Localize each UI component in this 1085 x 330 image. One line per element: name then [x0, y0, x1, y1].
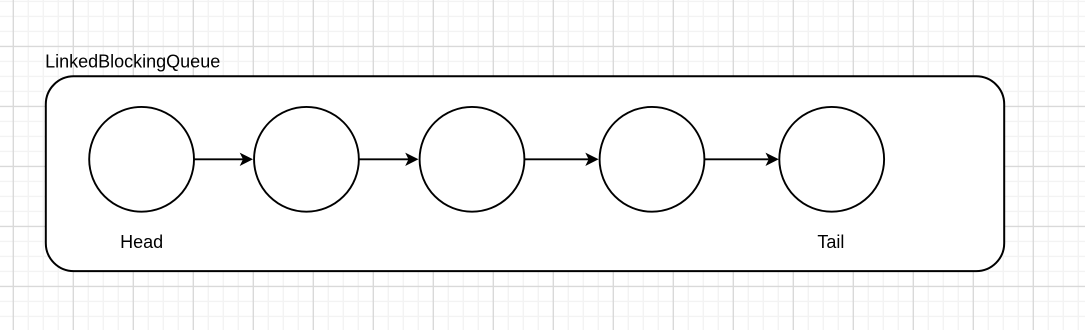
- arrow node3 to node4: [524, 153, 598, 166]
- arrow node4 to node5: [704, 153, 778, 166]
- arrow node1 to node2: [194, 153, 253, 166]
- node 4: [600, 107, 705, 212]
- svg-text:LinkedBlockingQueue: LinkedBlockingQueue: [45, 52, 220, 72]
- node 5 (Tail): [779, 107, 884, 212]
- container rounded rectangle: [46, 76, 1004, 271]
- svg-text:Head: Head: [120, 232, 163, 252]
- arrow node2 to node3: [359, 153, 419, 166]
- node 1 (Head): [89, 107, 194, 212]
- node 3: [420, 107, 525, 212]
- svg-text:Tail: Tail: [817, 232, 844, 252]
- node 2: [254, 107, 359, 212]
